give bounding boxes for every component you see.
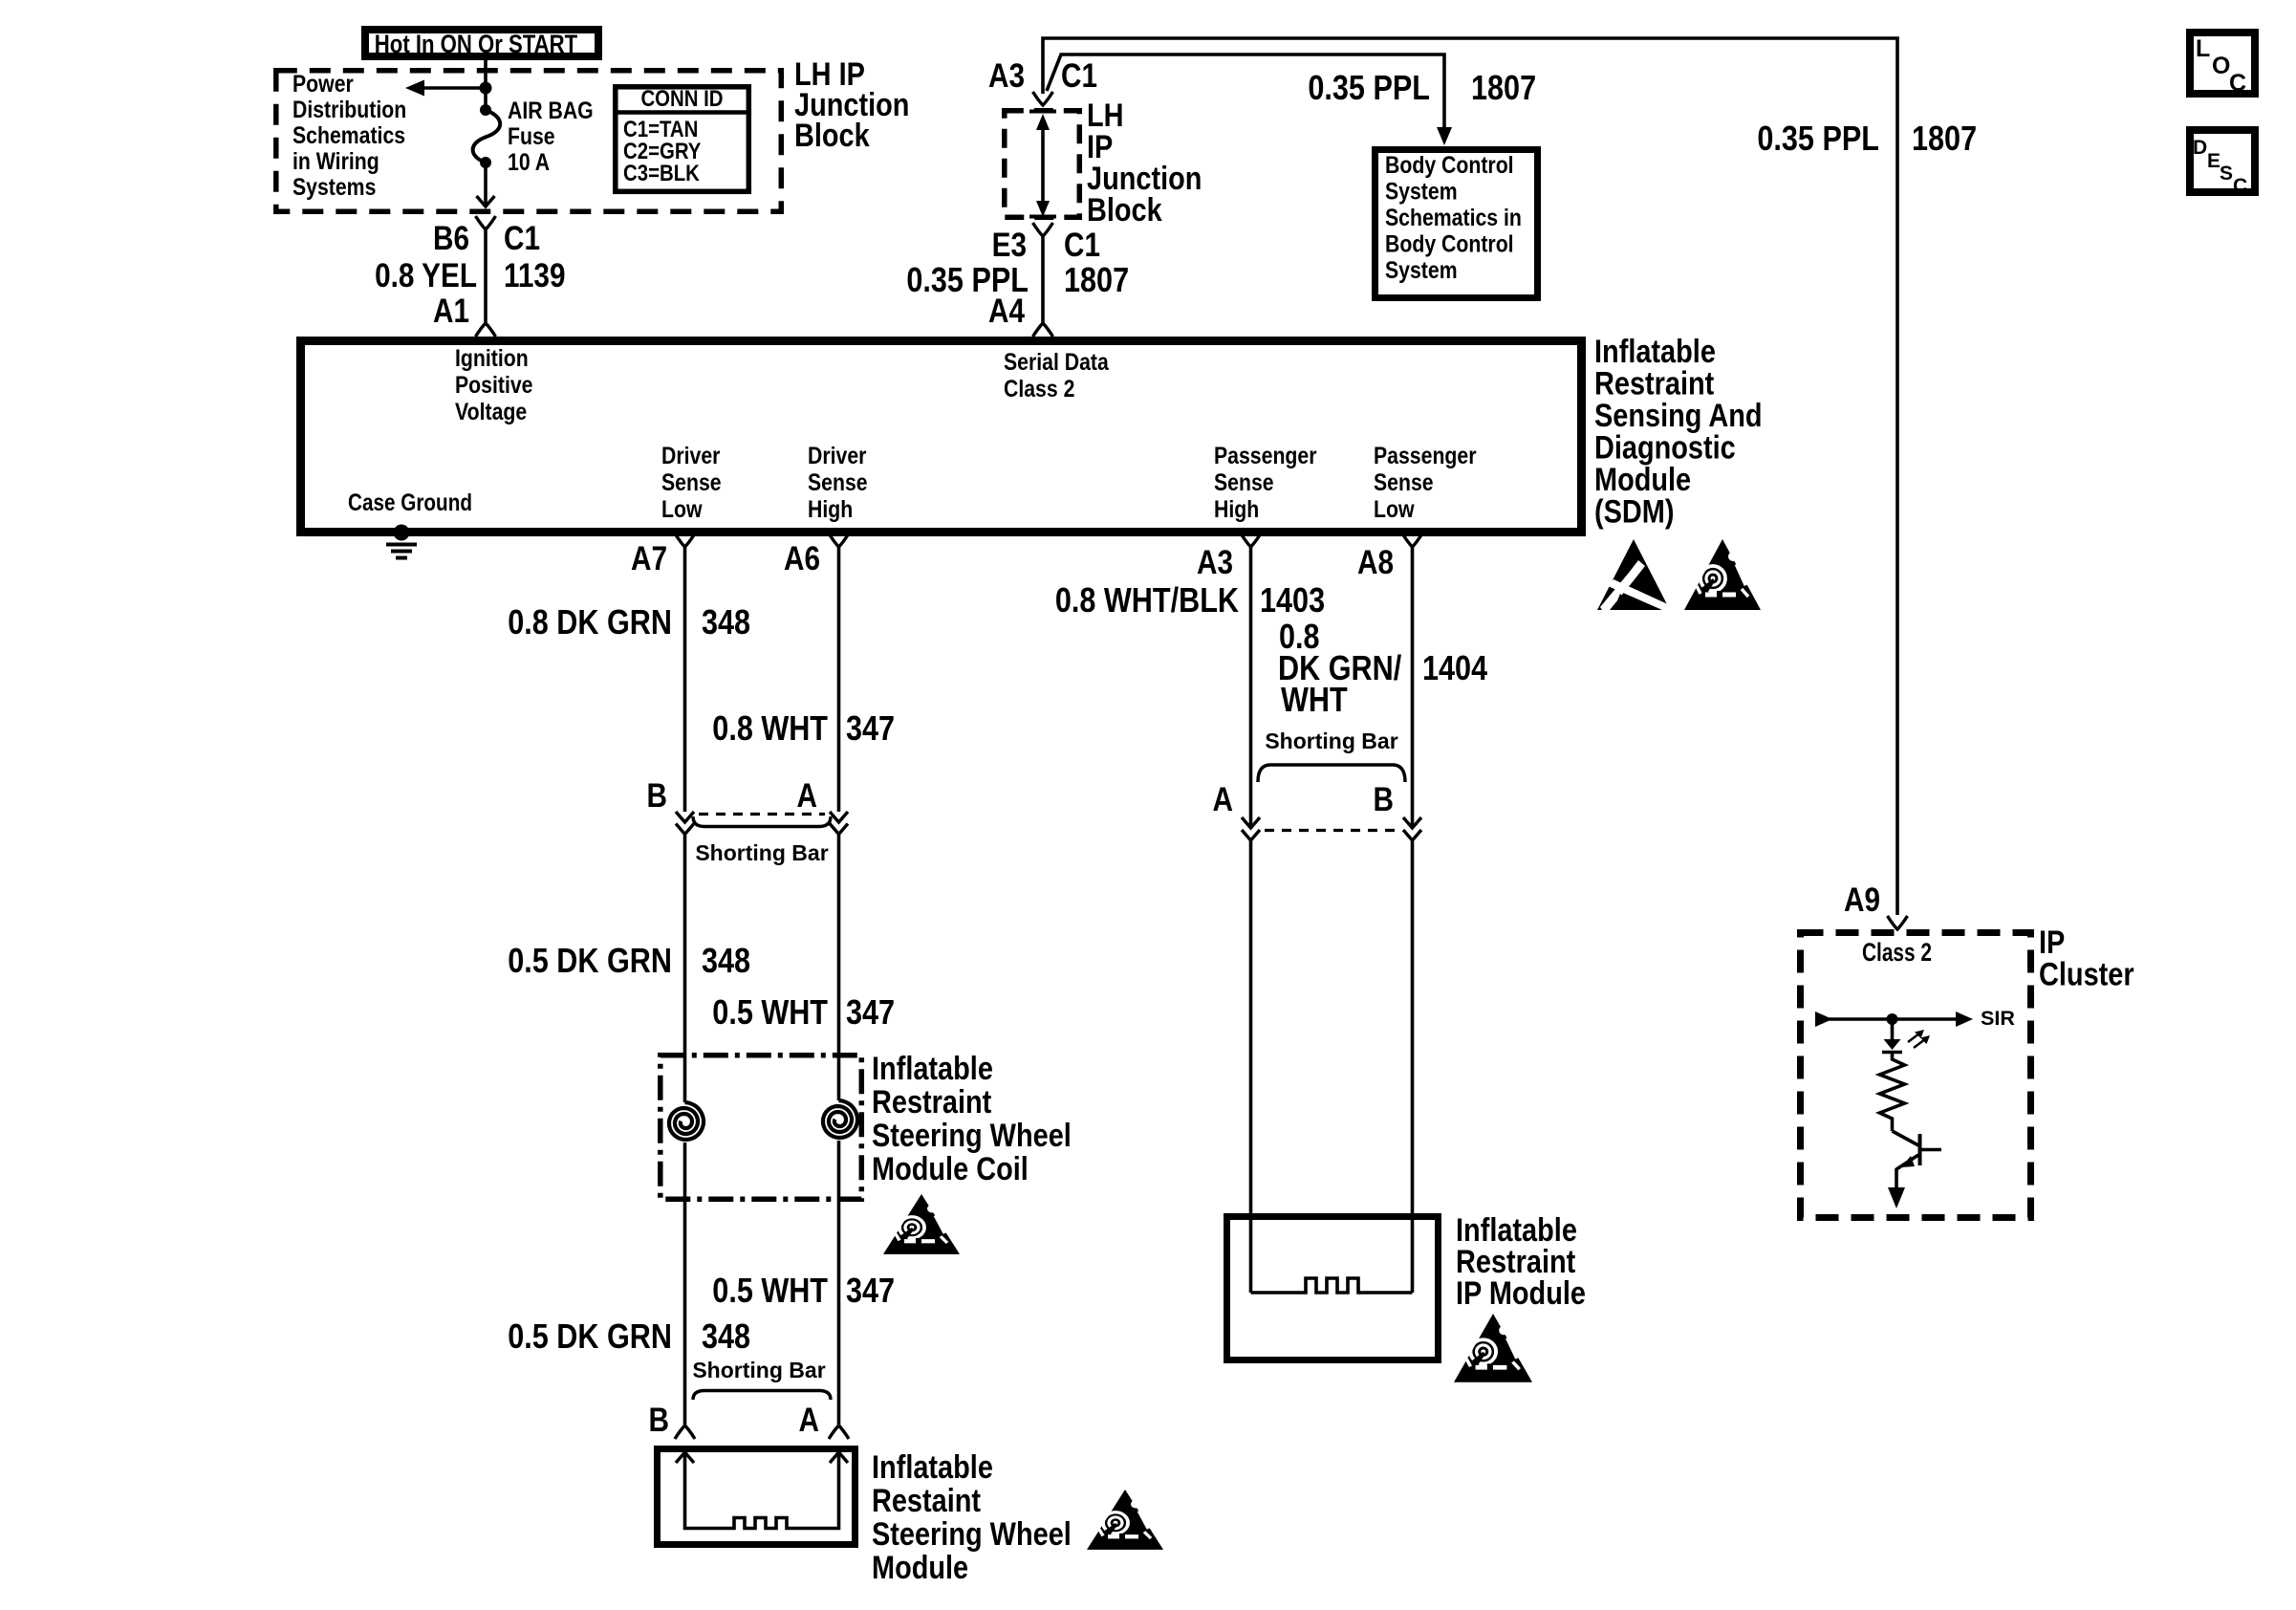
pin label A (module) — [799, 1402, 820, 1439]
resistor R1 (IP cluster) — [1880, 1052, 1905, 1131]
svg-text:B: B — [1374, 781, 1395, 818]
svg-text:1403: 1403 — [1260, 580, 1325, 620]
pin text: Case Ground — [348, 490, 472, 516]
svg-text:1404: 1404 — [1422, 648, 1487, 687]
svg-text:O: O — [2212, 53, 2230, 79]
connector C1 female (B6) below junction block — [476, 216, 496, 229]
svg-text:0.5 DK GRN: 0.5 DK GRN — [508, 1316, 672, 1356]
module: Inflatable Restraint IP Module box — [1227, 1217, 1439, 1360]
svg-text:Shorting Bar: Shorting Bar — [695, 840, 828, 865]
wire: to IP module pin A — [1249, 840, 1253, 1293]
svg-text:A3: A3 — [1197, 544, 1233, 581]
svg-text:B: B — [649, 1402, 670, 1439]
svg-text:1807: 1807 — [1471, 68, 1536, 107]
svg-text:Driver: Driver — [661, 443, 721, 469]
wire: 0.5 DK GRN 348 to coil — [683, 835, 687, 1103]
module: Inflatable Restraint Steering Wheel Module Coil box (dash-dot) — [661, 1055, 862, 1200]
svg-text:High: High — [1214, 496, 1259, 523]
label: Inflatable Restraint IP Module — [1456, 1212, 1586, 1312]
pin text: Passenger Sense Low — [1374, 443, 1477, 523]
wire: node to indicator LED — [1891, 1019, 1895, 1040]
svg-text:Low: Low — [661, 496, 703, 523]
svg-text:Passenger: Passenger — [1374, 443, 1477, 469]
icon box: DESC — [2190, 130, 2255, 197]
pin label A3 (passenger) — [1197, 544, 1233, 581]
wire label 1807 (right) — [1912, 119, 1977, 158]
junction node on ignition feed — [480, 82, 492, 95]
pin label A9 — [1844, 881, 1880, 919]
svg-text:Ignition: Ignition — [455, 345, 529, 372]
svg-text:High: High — [808, 496, 853, 523]
label: Inflatable Restraint Steering Wheel Module Coil — [872, 1051, 1072, 1187]
module U1: Inflatable Restraint Sensing and Diagnostic Module (SDM) box — [301, 341, 1582, 533]
squib: steering wheel module initiator — [676, 1452, 848, 1529]
svg-text:Inflatable: Inflatable — [1594, 334, 1716, 370]
svg-text:B: B — [647, 777, 668, 815]
connector female at SDM pin A1 — [476, 323, 496, 337]
svg-text:348: 348 — [702, 941, 750, 980]
svg-text:A9: A9 — [1844, 881, 1880, 919]
wire label 348 (3) — [702, 1316, 750, 1356]
svg-text:Steering Wheel: Steering Wheel — [872, 1118, 1072, 1154]
wire label 348 — [702, 602, 750, 642]
svg-text:Block: Block — [794, 118, 870, 154]
label: Shorting Bar (column connector) — [695, 840, 828, 865]
wire label 0.5 DK GRN — [508, 941, 672, 980]
svg-text:A4: A4 — [988, 293, 1025, 330]
svg-text:0.8 WHT: 0.8 WHT — [712, 708, 828, 748]
label: AIR BAG Fuse 10 A — [508, 98, 594, 176]
arrowhead: to SIR — [1956, 1012, 1973, 1027]
wire: class 2 internal run to SIR — [1829, 1017, 1956, 1021]
wire label 1807 (top) — [1471, 68, 1536, 107]
wire: 0.8 DK GRN 348 from A7 — [683, 547, 687, 812]
icon box: LOC — [2190, 33, 2255, 97]
connector female at SDM pin A7 — [675, 533, 695, 547]
svg-text:Inflatable: Inflatable — [872, 1449, 993, 1486]
svg-text:C1: C1 — [504, 220, 540, 257]
module: Inflatable Restraint Steering Wheel Module box — [658, 1449, 856, 1545]
svg-text:E: E — [2207, 150, 2220, 172]
icon: airbag warning triangle (IP module) — [1454, 1314, 1532, 1382]
pin text: Ignition Positive Voltage — [455, 345, 533, 425]
svg-text:System: System — [1385, 179, 1458, 206]
svg-text:347: 347 — [846, 708, 895, 748]
pin label E3 — [992, 227, 1027, 264]
connector female at SDM pin A3 (passenger) — [1241, 533, 1261, 547]
shorting bar bracket (column connector) — [693, 816, 831, 827]
svg-text:Schematics: Schematics — [292, 122, 405, 149]
svg-text:0.35 PPL: 0.35 PPL — [1308, 68, 1430, 107]
connector: IP connector male pins — [1242, 817, 1421, 828]
svg-text:Class 2: Class 2 — [1862, 938, 1932, 967]
svg-text:C: C — [2233, 175, 2247, 197]
connector: column connector female pins — [676, 824, 848, 835]
connector: IP connector female pins — [1242, 830, 1421, 840]
connector female at IP cluster A9 — [1888, 916, 1908, 929]
svg-text:A: A — [797, 777, 818, 815]
wire label 0.8 YEL — [375, 257, 477, 294]
svg-text:Voltage: Voltage — [455, 399, 527, 425]
svg-text:Module: Module — [872, 1550, 968, 1586]
wire label 0.5 WHT — [712, 992, 828, 1032]
svg-text:Sense: Sense — [661, 469, 722, 496]
junction block internal link — [1029, 112, 1056, 218]
svg-text:A1: A1 — [433, 293, 469, 330]
coil L1: clockspring coil (driver low) — [669, 1102, 704, 1140]
svg-text:1807: 1807 — [1912, 119, 1977, 158]
wire label 0.5 WHT (2) — [712, 1271, 828, 1310]
svg-text:Module Coil: Module Coil — [872, 1151, 1029, 1187]
connector male arrow at dashed box exit — [477, 196, 495, 207]
arrowhead: into body control system box — [1437, 127, 1452, 145]
pin label A3 (junction block) — [988, 57, 1025, 95]
wire: 0.8 YEL 1139 to SDM A1 — [484, 229, 487, 322]
icon: ESD warning triangle — [1597, 539, 1670, 610]
svg-text:A: A — [1213, 781, 1234, 818]
node: class 2 input arrow — [1815, 1012, 1832, 1027]
svg-text:AIR BAG: AIR BAG — [508, 98, 594, 124]
pin label B6 — [433, 220, 469, 257]
dashed box: LH IP Junction Block (serial data) — [1005, 111, 1080, 218]
svg-text:Passenger: Passenger — [1214, 443, 1317, 469]
label: Class 2 (IP cluster) — [1862, 938, 1932, 967]
pin text: Passenger Sense High — [1214, 443, 1317, 523]
wire: class 2 serial data to IP cluster (top run) — [1043, 38, 1897, 915]
power feed box: Hot In ON Or START — [365, 30, 598, 58]
label: IP Cluster — [2039, 925, 2134, 993]
svg-text:Cluster: Cluster — [2039, 957, 2134, 993]
wire label 0.8 WHT/BLK — [1055, 580, 1239, 620]
pin label C1 (junction block) — [1061, 57, 1097, 95]
transistor Q1: SIR driver — [1893, 1131, 1942, 1188]
svg-text:0.5 WHT: 0.5 WHT — [712, 1271, 828, 1310]
pin text: Driver Sense High — [808, 443, 868, 523]
arrowhead: to power distribution — [405, 80, 424, 97]
svg-text:A: A — [799, 1402, 820, 1439]
pin label A (steering column connector) — [797, 777, 818, 815]
wire label 1807 (left) — [1064, 260, 1129, 299]
wire label 1403 — [1260, 580, 1325, 620]
wire: from Hot In box down to junction — [484, 60, 487, 90]
pin label A6 — [784, 540, 820, 577]
label: Inflatable Restaint Steering Wheel Module — [872, 1449, 1072, 1586]
pin label A4 — [988, 293, 1025, 330]
svg-text:0.5 WHT: 0.5 WHT — [712, 992, 828, 1032]
svg-text:0.8 WHT/BLK: 0.8 WHT/BLK — [1055, 580, 1239, 620]
connector: column connector male pins — [676, 812, 848, 822]
svg-text:SIR: SIR — [1981, 1008, 2015, 1030]
svg-text:C: C — [2229, 70, 2246, 97]
wire: class 2 serial data branch to BCS — [1047, 54, 1444, 128]
svg-text:Block: Block — [1087, 192, 1162, 228]
svg-text:Hot In ON Or START: Hot In ON Or START — [375, 30, 578, 58]
svg-text:(SDM): (SDM) — [1594, 494, 1675, 531]
pin label A8 — [1357, 544, 1394, 581]
wire label 347 (3) — [846, 1271, 895, 1310]
svg-text:Sensing And: Sensing And — [1594, 398, 1763, 434]
pin label A7 — [631, 540, 667, 577]
wire label 1139 — [504, 257, 566, 294]
svg-text:Sense: Sense — [808, 469, 868, 496]
svg-text:Shorting Bar: Shorting Bar — [692, 1358, 825, 1382]
svg-text:Body Control: Body Control — [1385, 152, 1514, 179]
icon: airbag warning triangle (module) — [1087, 1490, 1163, 1550]
wire: coil to lower connector (WHT) — [837, 1141, 841, 1425]
pin label A (IP connector) — [1213, 781, 1234, 818]
wire label 0.8 DK GRN/WHT — [1278, 617, 1401, 719]
connector female at module pin A — [829, 1425, 849, 1439]
svg-text:0.8 DK GRN: 0.8 DK GRN — [508, 602, 672, 642]
svg-text:Sense: Sense — [1374, 469, 1434, 496]
svg-text:Schematics in: Schematics in — [1385, 205, 1522, 231]
svg-text:0.5 DK GRN: 0.5 DK GRN — [508, 941, 672, 980]
svg-text:Positive: Positive — [455, 372, 533, 399]
table: CONN ID box — [616, 86, 749, 191]
label: Inflatable Restraint Sensing And Diagnostic Module (SDM) — [1594, 334, 1763, 531]
svg-text:WHT: WHT — [1281, 680, 1348, 719]
svg-text:E3: E3 — [992, 227, 1027, 264]
svg-text:Restaint: Restaint — [872, 1483, 981, 1519]
wire: 0.8 WHT/BLK 1403 from A3 — [1249, 547, 1253, 828]
pin label A1 — [433, 293, 469, 330]
svg-text:Low: Low — [1374, 496, 1415, 523]
wire: 0.8 DK GRN/WHT 1404 from A8 — [1411, 547, 1415, 828]
icon: airbag warning triangle (SDM) — [1684, 539, 1761, 610]
wire label 0.35 PPL (right) — [1757, 119, 1879, 158]
pin label B (steering column connector) — [647, 777, 668, 815]
label: Shorting Bar (IP harness connector) — [1265, 729, 1397, 753]
svg-text:IP: IP — [2039, 925, 2065, 961]
svg-text:0.8 YEL: 0.8 YEL — [375, 257, 477, 294]
svg-text:Restraint: Restraint — [1594, 366, 1714, 402]
svg-text:Power: Power — [292, 71, 354, 98]
svg-text:Diagnostic: Diagnostic — [1594, 430, 1736, 467]
svg-text:Driver: Driver — [808, 443, 867, 469]
svg-text:System: System — [1385, 257, 1458, 284]
label: LH IP Junction Block (serial data) — [1087, 98, 1202, 228]
module: Body Control System reference box — [1375, 150, 1538, 298]
wire: 0.5 WHT 347 to coil — [837, 835, 841, 1101]
connector female E3/C1 below junction block — [1033, 223, 1053, 236]
svg-text:348: 348 — [702, 602, 750, 642]
connector interface dashed line (IP) — [1265, 829, 1398, 832]
LED D1: SIR indicator — [1882, 1030, 1930, 1053]
wire: 0.8 WHT 347 from A6 — [837, 547, 841, 812]
svg-text:348: 348 — [702, 1316, 750, 1356]
pin label B (module) — [649, 1402, 670, 1439]
label: LH IP Junction Block (power feed) — [794, 56, 909, 154]
svg-text:Shorting Bar: Shorting Bar — [1265, 729, 1397, 753]
svg-text:Systems: Systems — [292, 174, 376, 201]
svg-text:10 A: 10 A — [508, 149, 550, 176]
svg-text:in Wiring: in Wiring — [292, 148, 379, 175]
wire: to IP module pin B — [1411, 840, 1415, 1293]
dashed box: LH IP Junction Block (power distribution) — [276, 71, 782, 212]
svg-text:C3=BLK: C3=BLK — [623, 161, 700, 186]
svg-text:0.35 PPL: 0.35 PPL — [1757, 119, 1879, 158]
ground: SDM case ground symbol — [386, 525, 417, 558]
pin label B (IP connector) — [1374, 781, 1395, 818]
wire: fuse to junction block edge — [484, 163, 487, 205]
wire label 0.5 DK GRN (2) — [508, 1316, 672, 1356]
shorting bar bracket (module connector) — [693, 1391, 831, 1401]
svg-text:A8: A8 — [1357, 544, 1394, 581]
svg-text:C1: C1 — [1061, 57, 1097, 95]
svg-text:B6: B6 — [433, 220, 469, 257]
wire: 0.35 PPL 1807 to SDM A4 — [1041, 236, 1045, 322]
wire label 0.8 WHT — [712, 708, 828, 748]
label: Power Distribution Schematics in Wiring Systems — [292, 71, 406, 201]
wire label 347 (2) — [846, 992, 895, 1032]
svg-text:L: L — [2196, 35, 2210, 62]
svg-text:S: S — [2220, 163, 2233, 185]
svg-text:Steering Wheel: Steering Wheel — [872, 1516, 1072, 1553]
svg-text:Distribution: Distribution — [292, 97, 406, 123]
pin label C1 — [504, 220, 540, 257]
svg-text:A6: A6 — [784, 540, 820, 577]
label: Body Control System Schematics in Body Control System — [1385, 152, 1522, 284]
svg-text:CONN ID: CONN ID — [640, 86, 723, 112]
wire: coil to lower connector (DK GRN) — [683, 1142, 687, 1425]
connector interface dashed line — [699, 813, 825, 816]
arrowhead: emitter to ground side — [1888, 1187, 1905, 1208]
svg-text:347: 347 — [846, 992, 895, 1032]
svg-text:IP Module: IP Module — [1456, 1275, 1586, 1312]
coil L2: clockspring coil (driver high) — [823, 1100, 857, 1138]
shorting bar bracket (IP harness connector) — [1258, 765, 1405, 782]
wire label 0.35 PPL (left) — [906, 260, 1029, 299]
svg-text:A7: A7 — [631, 540, 667, 577]
svg-text:Serial Data: Serial Data — [1004, 349, 1110, 376]
svg-text:1807: 1807 — [1064, 260, 1129, 299]
svg-text:Module: Module — [1594, 462, 1691, 498]
connector female at SDM pin A4 — [1033, 323, 1053, 337]
label: SIR — [1981, 1008, 2015, 1030]
svg-text:Inflatable: Inflatable — [872, 1051, 993, 1087]
svg-text:Fuse: Fuse — [508, 123, 555, 150]
wire label 0.35 PPL (top) — [1308, 68, 1430, 107]
svg-text:1139: 1139 — [504, 257, 566, 294]
pin text: Serial Data Class 2 — [1004, 349, 1110, 402]
svg-text:A3: A3 — [988, 57, 1025, 95]
pin text: Driver Sense Low — [661, 443, 722, 523]
fuse F1: AIR BAG Fuse 10 A — [473, 104, 501, 168]
svg-text:Class 2: Class 2 — [1004, 376, 1074, 402]
wire label 0.8 DK GRN — [508, 602, 672, 642]
connector female at SDM pin A6 — [829, 533, 849, 547]
connector female at SDM pin A8 — [1402, 533, 1422, 547]
svg-text:Case Ground: Case Ground — [348, 490, 472, 516]
svg-text:Restraint: Restraint — [872, 1084, 991, 1120]
icon: airbag warning triangle (coil) — [883, 1194, 960, 1254]
wire: branch to power distribution schematics — [423, 86, 486, 90]
wire label 348 (2) — [702, 941, 750, 980]
wire label 1404 — [1422, 648, 1487, 687]
svg-text:Body Control: Body Control — [1385, 231, 1514, 258]
svg-text:C1: C1 — [1064, 227, 1100, 264]
svg-text:D: D — [2193, 137, 2207, 159]
connector female at module pin B — [675, 1425, 695, 1439]
squib: IP module initiator — [1251, 1278, 1413, 1293]
connector female at LH IP junction block A3/C1 — [1033, 92, 1053, 105]
pin label C1 (2) — [1064, 227, 1100, 264]
dashed box: IP Cluster — [1801, 933, 2031, 1218]
svg-text:347: 347 — [846, 1271, 895, 1310]
wire label 347 — [846, 708, 895, 748]
junction node (IP cluster) — [1887, 1013, 1898, 1025]
label: Shorting Bar (module connector) — [692, 1358, 825, 1382]
wire: junction to fuse — [484, 88, 487, 110]
svg-text:Sense: Sense — [1214, 469, 1274, 496]
